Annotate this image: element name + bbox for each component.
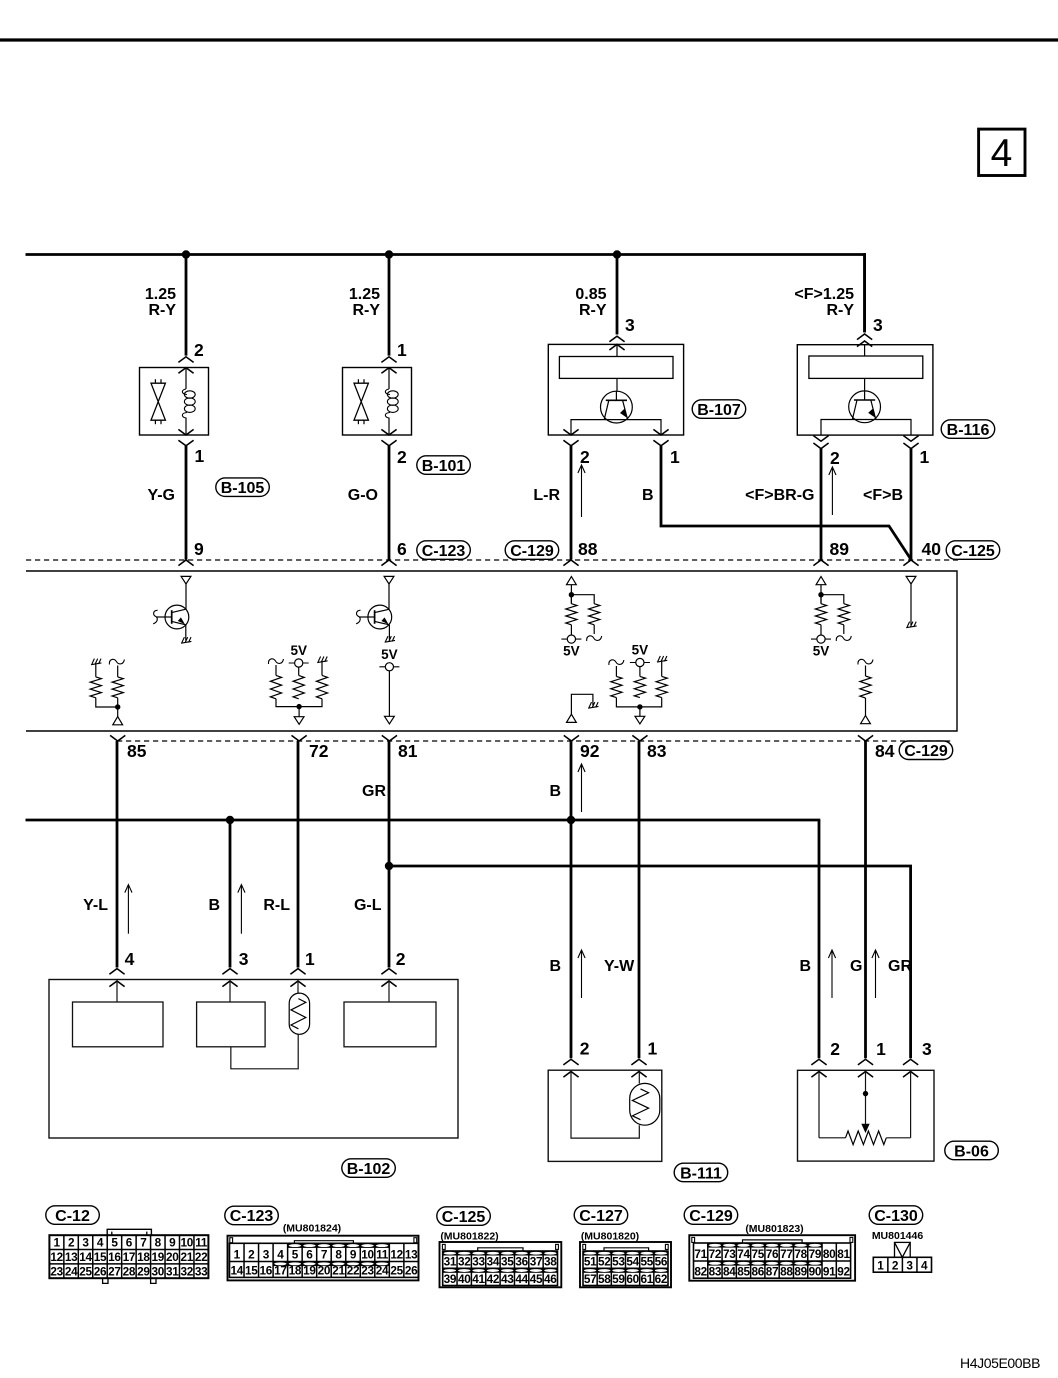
svg-text:B-101: B-101 [422, 458, 466, 475]
terminal chevrons at B-102 pin 2 [381, 969, 396, 975]
resistor (pin 72 network, left) [275, 665, 277, 675]
svg-text:4: 4 [125, 949, 135, 969]
terminal chevrons at B-111 pin 2 [563, 1059, 578, 1065]
junction node bus/B-105 [182, 250, 190, 258]
ground bus wire (horizontal) [26, 819, 821, 822]
connector label C-129 (ECU side) [505, 541, 559, 560]
terminal chevrons at B-107 pin 3 [609, 336, 624, 342]
svg-text:56: 56 [655, 1255, 668, 1269]
terminal chevron ECU pin 92 [564, 735, 579, 741]
component label B-06 [945, 1141, 999, 1160]
wire ECU pin 84 to B-06 pin 1 (G) [864, 741, 867, 1058]
wire heater to sensing cell [616, 378, 618, 391]
svg-text:32: 32 [458, 1255, 471, 1269]
svg-text:(MU801824): (MU801824) [283, 1223, 341, 1235]
svg-text:B: B [549, 783, 561, 800]
wire transistor emitter to ground [185, 625, 187, 641]
svg-text:0.85: 0.85 [575, 286, 606, 303]
svg-text:2: 2 [396, 949, 406, 969]
junction node ground bus / pin 92 wire [567, 816, 575, 824]
svg-text:78: 78 [794, 1247, 807, 1261]
terminal chevron ECU pin 84 [858, 735, 873, 741]
resistor (pin 89 network, right) [838, 604, 849, 625]
svg-text:15: 15 [245, 1264, 258, 1278]
svg-text:85: 85 [737, 1265, 750, 1279]
svg-text:89: 89 [830, 539, 850, 559]
junction node B-06 wiper [863, 1091, 868, 1096]
svg-text:14: 14 [230, 1264, 243, 1278]
svg-text:3: 3 [873, 315, 883, 335]
svg-text:33: 33 [195, 1264, 208, 1278]
squiggle continuation (pin 85 network) [109, 659, 124, 664]
wire B-111 pin 1 to thermistor [638, 1072, 640, 1084]
connector C-12 top tab [107, 1229, 151, 1235]
connector C-123 top strip [294, 1241, 353, 1244]
oxygen sensor B-107 box [548, 344, 683, 435]
svg-text:33: 33 [472, 1255, 485, 1269]
svg-text:R-Y: R-Y [579, 302, 607, 319]
svg-text:C-12: C-12 [55, 1208, 90, 1225]
resistor (pin 85 network, left) [95, 664, 97, 677]
svg-text:Y-G: Y-G [147, 487, 175, 504]
wire triangle to node [820, 585, 822, 604]
svg-text:20: 20 [318, 1264, 331, 1278]
resistor (pin 72 network, middle) [298, 667, 300, 675]
junction node ground bus / B-102 pin 3 [226, 816, 234, 824]
svg-text:6: 6 [397, 539, 407, 559]
svg-text:82: 82 [694, 1265, 707, 1279]
connector C-125 label [437, 1207, 491, 1226]
direction arrow on B wire [240, 886, 242, 934]
connector C-129 body [689, 1235, 855, 1281]
svg-text:17: 17 [274, 1264, 287, 1278]
injector B-101 nozzle symbol [357, 379, 359, 383]
svg-text:13: 13 [65, 1250, 78, 1264]
wire G-O from B-101 pin 2 to ECU pin 6 [388, 446, 391, 560]
injector B-105 box [140, 368, 209, 436]
svg-text:21: 21 [332, 1264, 345, 1278]
svg-text:10: 10 [180, 1236, 193, 1250]
terminal chevron at C-125 pin 40 [903, 560, 918, 566]
direction arrow at B-06 pin 2 [831, 951, 833, 998]
connector boundary dashed line (bottom) [117, 740, 953, 742]
svg-text:B-06: B-06 [954, 1143, 989, 1160]
wire to node [616, 698, 640, 707]
wire B-111 pin 2 loop to thermistor [571, 1072, 639, 1139]
connector C-130 pin grid [873, 1257, 931, 1272]
connector C-12 label [46, 1206, 100, 1225]
resistor (pin 85 network, right) [117, 666, 119, 677]
ECU triangle pin 92 [567, 714, 577, 722]
svg-text:37: 37 [530, 1255, 543, 1269]
component B-111 box [548, 1070, 662, 1161]
resistor (pin 83 network, right) [661, 661, 663, 677]
wire pin 6 to transistor [388, 584, 390, 609]
connector C-125 pin grid [443, 1251, 558, 1286]
junction node pin 83 network [637, 704, 642, 709]
svg-text:G-O: G-O [348, 487, 378, 504]
component B-102 box [49, 980, 458, 1139]
svg-text:87: 87 [766, 1265, 779, 1279]
wire B-06 pin 1 wiper [865, 1072, 867, 1127]
ECU ground link wire pin 92 [571, 694, 593, 714]
terminal chevrons at B-105 pin 2 [178, 357, 193, 363]
svg-text:89: 89 [794, 1265, 807, 1279]
svg-text:31: 31 [444, 1255, 457, 1269]
ground (ECU internal, pin 9 driver) [181, 641, 191, 643]
transistor (ECU driver, pin 6) [368, 605, 392, 629]
B-102 internal block 1 [73, 1002, 164, 1047]
svg-text:B: B [799, 958, 811, 975]
connector C-129 cavity bands [708, 1243, 822, 1248]
svg-text:3: 3 [625, 315, 635, 335]
svg-text:53: 53 [612, 1255, 625, 1269]
oxygen sensor B-116 box [797, 345, 933, 435]
terminal chevron at C-129 pin 88 [563, 560, 578, 566]
svg-text:59: 59 [612, 1272, 625, 1286]
wire B-102 pin 1 to thermistor [297, 981, 299, 993]
connector C-127 top strip [604, 1248, 649, 1251]
inline harness chevrons at B-116 pin 1 [903, 436, 918, 442]
svg-text:74: 74 [737, 1247, 750, 1261]
wire ECU pin 85 to B-102 pin 4 (Y-L) [116, 741, 119, 968]
connector C-127 corner notches [583, 1244, 586, 1249]
svg-text:83: 83 [647, 741, 667, 761]
svg-text:12: 12 [50, 1250, 63, 1264]
B-102 internal block 3 [344, 1002, 436, 1047]
wire resistor to 5V [820, 625, 822, 635]
wire L-R from B-107 pin 2 to ECU pin 88 [570, 446, 573, 560]
ECU input triangle pin 89 [816, 577, 826, 585]
squiggle continuation (pin 89 network) [836, 636, 851, 641]
svg-text:16: 16 [260, 1264, 273, 1278]
svg-text:60: 60 [626, 1272, 639, 1286]
connector C-12 bottom tabs [103, 1278, 108, 1283]
wire B-102 pin 4 internal [116, 981, 118, 1002]
svg-text:34: 34 [487, 1255, 500, 1269]
wire resistor to squiggle [593, 625, 595, 634]
terminal chevrons at B-102 pin 4 [109, 969, 124, 975]
svg-text:9: 9 [194, 539, 204, 559]
wire node to right resistor [821, 595, 844, 604]
wire into B-107 heater [616, 344, 618, 356]
terminal chevrons at B-101 pin 2 [381, 429, 396, 435]
svg-text:5V: 5V [813, 644, 830, 659]
svg-text:(MU801822): (MU801822) [440, 1231, 498, 1243]
svg-text:2: 2 [248, 1248, 255, 1262]
component label B-107 [692, 400, 746, 419]
wire B from bus to B-102 pin 3 [229, 820, 232, 968]
svg-text:23: 23 [361, 1264, 374, 1278]
svg-text:5: 5 [292, 1248, 299, 1262]
wire node to right resistor [571, 595, 594, 604]
svg-text:1: 1 [53, 1236, 60, 1250]
svg-text:3: 3 [239, 949, 249, 969]
svg-text:77: 77 [780, 1247, 793, 1261]
svg-text:5: 5 [111, 1236, 118, 1250]
injector B-101 box [343, 368, 412, 436]
terminal chevrons at B-101 pin 1 [381, 357, 396, 363]
connector boundary dashed line (top) [26, 559, 958, 561]
svg-text:12: 12 [390, 1248, 403, 1262]
wire pin 9 to transistor [185, 584, 187, 609]
squiggle continuation (pin 83 network) [609, 660, 624, 665]
ground (pin 83 network) [657, 660, 667, 662]
ECU input triangle pin 40 [906, 576, 916, 584]
svg-text:(MU801820): (MU801820) [581, 1231, 639, 1243]
ground (ECU internal, pin 40) [906, 626, 916, 628]
svg-text:19: 19 [303, 1264, 316, 1278]
wire node to pin 83 [639, 707, 641, 716]
5V supply (pin 89 network) [811, 638, 831, 640]
junction node pin 85 network [115, 704, 120, 709]
svg-text:<F>1.25: <F>1.25 [794, 286, 854, 303]
ECU output triangle pin 72 [294, 717, 304, 725]
wire triangle to node [570, 585, 572, 604]
svg-text:61: 61 [640, 1272, 653, 1286]
resistor (pin 83 network, middle) [639, 667, 641, 677]
wire <F>B from B-116 pin 1 to ECU pin 40 [910, 449, 913, 560]
svg-text:31: 31 [166, 1264, 179, 1278]
direction arrow on wire 88 [581, 466, 583, 517]
svg-text:R-Y: R-Y [148, 302, 176, 319]
terminal chevron ECU pin 85 [110, 735, 125, 741]
svg-text:3: 3 [82, 1236, 89, 1250]
component label B-116 [941, 420, 995, 439]
wire: B-116 supply drop (corner of bus) [863, 253, 866, 332]
connector C-123 pin grid [230, 1243, 419, 1277]
resistor (pin 83 network, left) [615, 666, 617, 676]
transistor (ECU driver, pin 9) [165, 605, 189, 629]
component label B-102 [342, 1159, 396, 1178]
svg-text:1: 1 [305, 949, 315, 969]
terminal chevrons at B-06 pin 2 [811, 1059, 826, 1065]
svg-text:L-R: L-R [533, 487, 560, 504]
junction node pin 88 network [569, 592, 574, 597]
svg-text:<F>BR-G: <F>BR-G [745, 487, 814, 504]
ECU triangle pin 84 [861, 716, 871, 724]
wire B-102 pin 3 internal [229, 981, 231, 1002]
connector C-125 corner notches [442, 1244, 445, 1249]
wire resistor to node [96, 698, 118, 707]
junction node pin 72 network [296, 704, 301, 709]
svg-text:84: 84 [723, 1265, 736, 1279]
svg-text:5V: 5V [290, 643, 307, 658]
svg-text:35: 35 [501, 1255, 514, 1269]
junction node GR bus [385, 862, 393, 870]
svg-text:90: 90 [809, 1265, 822, 1279]
B-116 sensing cell symbol [849, 391, 881, 423]
svg-text:26: 26 [94, 1264, 107, 1278]
svg-text:1.25: 1.25 [349, 286, 380, 303]
connector C-127 label [574, 1206, 628, 1225]
ground (ECU internal, pin 85 network) [91, 663, 101, 665]
ground (ECU internal, pin 6 driver) [385, 640, 395, 642]
wire into B-116 heater [864, 345, 866, 356]
wire node to pin 72 [298, 707, 300, 717]
svg-text:10: 10 [361, 1248, 374, 1262]
terminal chevrons at B-107 pin 2 [563, 429, 578, 435]
connector C-123 corner notches [230, 1238, 233, 1243]
wire resistor to 5V [570, 625, 572, 635]
svg-text:22: 22 [195, 1250, 208, 1264]
svg-text:C-125: C-125 [442, 1209, 486, 1226]
resistor (pin 88 network, right) [589, 604, 600, 625]
wire transistor emitter to ground [388, 625, 390, 640]
resistor (pin 88 network, left) [570, 595, 572, 604]
svg-text:5V: 5V [381, 647, 398, 662]
svg-text:1: 1 [195, 446, 205, 466]
svg-text:27: 27 [108, 1264, 121, 1278]
svg-text:71: 71 [694, 1247, 707, 1261]
svg-text:B-111: B-111 [680, 1165, 722, 1182]
connector C-127 body [580, 1242, 671, 1287]
B-107 sensing cell symbol [601, 391, 633, 423]
5V supply (ECU, pin 81) [379, 666, 399, 668]
terminal chevron at C-123 pin 6 [381, 560, 396, 566]
wire ECU pin 83 to B-111 pin 1 (Y-W) [638, 741, 641, 1058]
B-116 internal loop wire to pins [821, 420, 911, 436]
svg-text:45: 45 [530, 1272, 543, 1286]
wire heater to sensing cell [864, 378, 866, 391]
svg-text:<F>B: <F>B [863, 487, 903, 504]
B-102 internal block 2 [197, 1002, 266, 1047]
svg-text:62: 62 [655, 1272, 668, 1286]
svg-text:24: 24 [65, 1264, 78, 1278]
B-107 heater element rectangle [559, 357, 673, 379]
connector C-130 label [869, 1206, 923, 1225]
svg-text:2: 2 [580, 1039, 590, 1059]
svg-text:58: 58 [598, 1272, 611, 1286]
svg-text:16: 16 [108, 1250, 121, 1264]
svg-text:40: 40 [458, 1272, 471, 1286]
svg-text:11: 11 [376, 1248, 389, 1262]
junction node bus/B-107 [613, 250, 621, 258]
svg-text:88: 88 [578, 539, 598, 559]
wire B-102 pin 2 internal [388, 981, 390, 1002]
svg-text:1: 1 [234, 1248, 241, 1262]
wire resistor to pin 84 [865, 698, 867, 716]
svg-text:2: 2 [194, 340, 204, 360]
wire: main power bus from fuse (top horizontal) [26, 253, 867, 256]
svg-text:42: 42 [487, 1272, 500, 1286]
svg-text:57: 57 [584, 1272, 597, 1286]
svg-text:H4J05E00BB: H4J05E00BB [960, 1355, 1040, 1371]
5V supply (pin 88 network) [561, 638, 581, 640]
potentiometer resistor (B-06) [819, 1137, 846, 1139]
svg-text:G-L: G-L [354, 897, 382, 914]
B-116 heater element rectangle [809, 356, 923, 378]
svg-text:2: 2 [830, 1039, 840, 1059]
squiggle continuation (pin 88 network) [587, 636, 602, 641]
5V supply (pin 72 network) [289, 662, 309, 664]
component label B-101 [417, 456, 471, 475]
svg-text:G: G [850, 958, 862, 975]
svg-text:72: 72 [709, 1247, 722, 1261]
svg-text:11: 11 [195, 1236, 208, 1250]
svg-text:13: 13 [405, 1248, 418, 1262]
connector C-123 body [228, 1236, 419, 1281]
svg-text:3: 3 [263, 1248, 270, 1262]
svg-text:Y-W: Y-W [604, 958, 635, 975]
svg-text:20: 20 [166, 1250, 179, 1264]
svg-text:25: 25 [79, 1264, 92, 1278]
terminal chevrons at B-06 pin 3 [903, 1059, 918, 1065]
connector C-130 keyway [895, 1242, 911, 1257]
wire ECU pin 72 to B-102 pin 1 (R-L) [297, 741, 300, 968]
svg-text:MU801446: MU801446 [872, 1230, 924, 1242]
svg-text:55: 55 [640, 1255, 653, 1269]
svg-text:GR: GR [888, 958, 912, 975]
connector C-129 top strip [743, 1240, 803, 1243]
wire ground bus corner to B-06 pin 2 [818, 820, 821, 1058]
ECU box (engine control unit) [26, 571, 957, 731]
svg-text:54: 54 [626, 1255, 639, 1269]
connector C-12 pin grid [49, 1235, 208, 1278]
wire B from B-107 pin 1 to joint 40 [661, 446, 911, 560]
svg-text:75: 75 [752, 1247, 765, 1261]
connector C-125 top strip [478, 1248, 523, 1251]
injector B-101 coil [388, 368, 390, 390]
svg-text:4: 4 [991, 132, 1013, 175]
inline harness chevrons at B-116 pin 2 [813, 436, 828, 442]
svg-text:52: 52 [598, 1255, 611, 1269]
svg-text:B: B [208, 897, 220, 914]
ECU output triangle pin 81 [385, 716, 395, 724]
svg-text:7: 7 [321, 1248, 328, 1262]
svg-text:43: 43 [501, 1272, 514, 1286]
B-107 internal loop wire to pins [571, 420, 661, 435]
svg-text:76: 76 [766, 1247, 779, 1261]
wire B-06 pin 2 to potentiometer [818, 1072, 820, 1138]
ECU output triangle pin 83 [635, 716, 645, 724]
svg-text:72: 72 [309, 741, 329, 761]
connector C-129 corner notches [692, 1237, 695, 1242]
ground (ECU internal, pin 92) [588, 706, 598, 708]
svg-text:2: 2 [397, 447, 407, 467]
wire <F>BR-G from B-116 pin 2 to ECU pin 89 [820, 449, 823, 560]
svg-text:B-116: B-116 [947, 422, 990, 439]
wire 1.25 R-Y to B-101 pin 1 [388, 255, 391, 356]
svg-text:17: 17 [123, 1250, 136, 1264]
svg-text:9: 9 [169, 1236, 176, 1250]
squiggle continuation (pin 84) [858, 659, 873, 664]
svg-text:2: 2 [892, 1258, 899, 1272]
svg-text:46: 46 [544, 1272, 557, 1286]
terminal chevrons at B-105 pin 1 [178, 429, 193, 435]
ground (pin 72 network) [317, 661, 327, 663]
svg-text:8: 8 [155, 1236, 162, 1250]
wire B-06 pin 3 to potentiometer [910, 1072, 912, 1138]
svg-text:25: 25 [390, 1264, 403, 1278]
connector label C-129 (lower row) [899, 741, 953, 760]
svg-text:7: 7 [140, 1236, 147, 1250]
connector C-125 body [440, 1242, 562, 1287]
svg-text:4: 4 [277, 1248, 284, 1262]
terminal chevrons at B-111 pin 1 [631, 1059, 646, 1065]
svg-text:1: 1 [648, 1039, 658, 1059]
svg-text:2: 2 [68, 1236, 75, 1250]
wire resistor to node [117, 698, 119, 717]
junction node pin 89 network [818, 592, 823, 597]
svg-text:B-105: B-105 [221, 480, 265, 497]
svg-text:84: 84 [875, 741, 895, 761]
resistor (pin 72 network, right) [321, 661, 323, 675]
svg-text:30: 30 [152, 1264, 165, 1278]
svg-text:15: 15 [94, 1250, 107, 1264]
wire 5V to ECU pin 81 [388, 671, 390, 716]
svg-text:C-130: C-130 [874, 1208, 918, 1225]
